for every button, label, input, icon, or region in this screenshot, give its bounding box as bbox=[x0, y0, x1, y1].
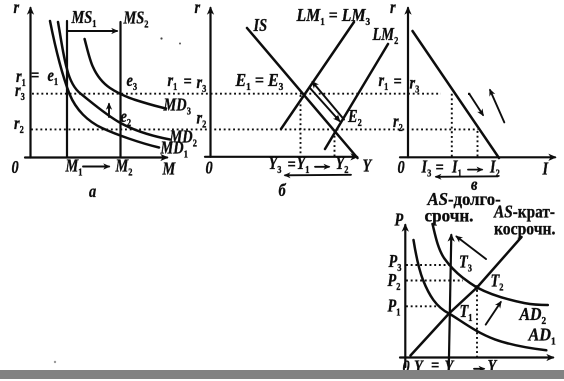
svg-text:IS: IS bbox=[253, 14, 267, 35]
svg-text:r2: r2 bbox=[393, 110, 403, 134]
short-run AS line bbox=[411, 237, 522, 356]
axis r (graph b) bbox=[209, 8, 211, 157]
svg-text:AD1: AD1 bbox=[528, 325, 556, 348]
svg-text:T1: T1 bbox=[460, 300, 473, 324]
axis M (graph a) bbox=[25, 156, 167, 158]
svg-text:MS2: MS2 bbox=[123, 7, 149, 31]
arrow MS1 to MS2 bbox=[68, 30, 117, 32]
svg-text:r: r bbox=[195, 0, 201, 17]
arrow I3 to I2 (leftward, below axis) bbox=[436, 175, 498, 178]
stray dot on r3 level (graph v) bbox=[468, 93, 470, 95]
svg-text:r3: r3 bbox=[197, 71, 207, 95]
dotted line P3 bbox=[406, 264, 449, 266]
dotted vertical at Y1 bbox=[300, 95, 302, 156]
svg-text:I: I bbox=[542, 158, 549, 179]
svg-text:T2: T2 bbox=[491, 270, 504, 294]
dotted line r2 level bbox=[31, 128, 478, 130]
line LM2 bbox=[325, 44, 388, 149]
svg-text:срочн.: срочн. bbox=[425, 205, 474, 226]
svg-text:AD2: AD2 bbox=[519, 304, 547, 327]
svg-text:r1: r1 bbox=[168, 69, 178, 93]
svg-text:r1: r1 bbox=[379, 69, 389, 93]
svg-text:r3: r3 bbox=[410, 72, 420, 96]
svg-text:E2: E2 bbox=[347, 105, 362, 129]
svg-text:LM2: LM2 bbox=[372, 23, 399, 47]
dotted vertical at I2 bbox=[477, 131, 479, 157]
svg-text:r2: r2 bbox=[14, 112, 24, 136]
svg-text:а: а bbox=[89, 180, 96, 201]
axis P (graph g) bbox=[404, 225, 406, 367]
point E2 bbox=[335, 116, 339, 120]
arrow AD1 to AD2 bbox=[486, 302, 501, 325]
arrow up-left bbox=[490, 90, 504, 122]
svg-text:I2: I2 bbox=[489, 156, 500, 180]
axis r (graph a) bbox=[29, 8, 31, 158]
dotted vertical at I1 bbox=[451, 94, 453, 157]
svg-text:e2: e2 bbox=[121, 105, 132, 129]
dotted line P2 bbox=[406, 280, 463, 282]
scan speck below graph a bbox=[54, 361, 56, 363]
arrow small Y1 to Y2 bbox=[315, 166, 329, 168]
svg-text:=: = bbox=[31, 64, 39, 85]
investment demand line bbox=[413, 31, 500, 158]
MS1 supply line bbox=[66, 21, 68, 157]
arrow small I1 to I2 bbox=[468, 169, 482, 171]
long-run AS vertical line bbox=[449, 235, 452, 367]
curve AD2 bbox=[433, 224, 548, 305]
arrow along demand (down-right) bbox=[469, 94, 483, 115]
axis r (graph v) bbox=[407, 8, 409, 157]
svg-text:б: б bbox=[279, 179, 287, 200]
shift arrow LM2 back to LM1 (up-left shaft) bbox=[313, 82, 345, 120]
scan speck near M axis bbox=[160, 37, 162, 39]
svg-text:MD3: MD3 bbox=[163, 94, 191, 118]
dotted vertical at T2 bbox=[476, 290, 478, 357]
svg-text:=: = bbox=[436, 156, 444, 177]
arrow M1 to M2 bbox=[83, 166, 109, 168]
svg-text:I3: I3 bbox=[421, 156, 432, 180]
scan speck right of graph a bbox=[179, 43, 181, 45]
svg-text:LM1 = LM3: LM1 = LM3 bbox=[296, 5, 371, 28]
arrow small Y* to Y (bottom row) bbox=[474, 368, 484, 370]
svg-text:T3: T3 bbox=[459, 251, 472, 275]
axis I (graph v) bbox=[400, 156, 555, 158]
svg-text:r2: r2 bbox=[197, 107, 207, 131]
svg-text:E1 = E3: E1 = E3 bbox=[235, 70, 284, 93]
svg-text:MS1: MS1 bbox=[71, 6, 97, 30]
MS2 supply line bbox=[119, 22, 121, 157]
curve MD2 bbox=[58, 22, 170, 140]
gray bar at bottom bbox=[0, 370, 564, 379]
svg-text:r: r bbox=[390, 0, 396, 17]
svg-text:P1: P1 bbox=[387, 295, 401, 319]
line IS bbox=[247, 28, 358, 158]
dotted line r3 level bbox=[32, 93, 441, 95]
line LM1=LM3 bbox=[281, 22, 354, 129]
dotted vertical at Y2 bbox=[334, 131, 336, 156]
svg-text:косрочн.: косрочн. bbox=[494, 218, 555, 238]
svg-text:M: M bbox=[162, 158, 176, 179]
arrow Y3 to Y2 (leftward, below axis) bbox=[285, 174, 351, 177]
svg-text:=: = bbox=[394, 70, 402, 91]
axis Y (graph b) bbox=[205, 156, 357, 158]
dotted line P1 bbox=[406, 305, 439, 307]
svg-text:P: P bbox=[394, 209, 405, 230]
svg-text:0: 0 bbox=[206, 157, 213, 178]
shift arrow MD2 to MD3 bbox=[108, 104, 110, 117]
curve MD1 bbox=[50, 21, 159, 148]
svg-text:0: 0 bbox=[12, 156, 19, 177]
shift arrow LM1 to LM2 (down-right shaft) bbox=[310, 88, 340, 122]
svg-text:I1: I1 bbox=[451, 156, 462, 180]
svg-text:0: 0 bbox=[398, 156, 405, 177]
svg-text:Y: Y bbox=[363, 155, 374, 176]
point T2 bbox=[475, 285, 480, 290]
svg-text:=: = bbox=[184, 70, 192, 91]
svg-text:=: = bbox=[288, 153, 296, 174]
svg-text:e3: e3 bbox=[127, 69, 138, 93]
curve AD1 bbox=[414, 240, 547, 350]
arrow to LRAS top bbox=[457, 237, 487, 260]
svg-text:r: r bbox=[14, 0, 20, 18]
svg-text:e1: e1 bbox=[48, 64, 59, 88]
axis Y (graph g) bbox=[400, 356, 553, 358]
curve MD3 bbox=[85, 39, 166, 109]
